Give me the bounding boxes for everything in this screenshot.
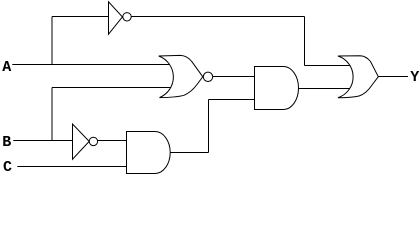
and gate U3 [127, 132, 171, 174]
or gate U6 [338, 56, 378, 98]
wire A input [12, 64, 169, 66]
wire C input [17, 166, 126, 168]
wire U4 output [213, 76, 255, 78]
and gate U5 [255, 67, 299, 110]
wire Y output [378, 76, 408, 78]
inverter U2 [73, 124, 90, 159]
svg-text:A: A [2, 59, 11, 76]
wire B input [13, 140, 72, 142]
wire NOR lower input [52, 87, 171, 89]
wire riser A to inverter [51, 17, 53, 65]
wire riser down to OR [304, 17, 306, 66]
wire riser B to NOR [51, 88, 53, 141]
wire U1 output [131, 16, 304, 18]
wire U3 output [170, 152, 208, 154]
inverter U1 bubble [123, 13, 131, 21]
nor gate U4 [159, 55, 203, 97]
nor gate U4 bubble [203, 72, 212, 81]
wire U5 lower input [209, 99, 255, 101]
svg-text:B: B [2, 134, 11, 151]
inverter U1 [109, 2, 123, 34]
wire inverter U1 input [52, 16, 109, 18]
wire U5 output [299, 88, 351, 90]
wire OR top input [305, 65, 351, 67]
wire riser U3 to U5 [208, 100, 210, 153]
wire U2 output [98, 140, 127, 142]
inverter U2 bubble [89, 137, 97, 145]
svg-text:Y: Y [410, 69, 419, 86]
svg-text:C: C [3, 159, 12, 176]
